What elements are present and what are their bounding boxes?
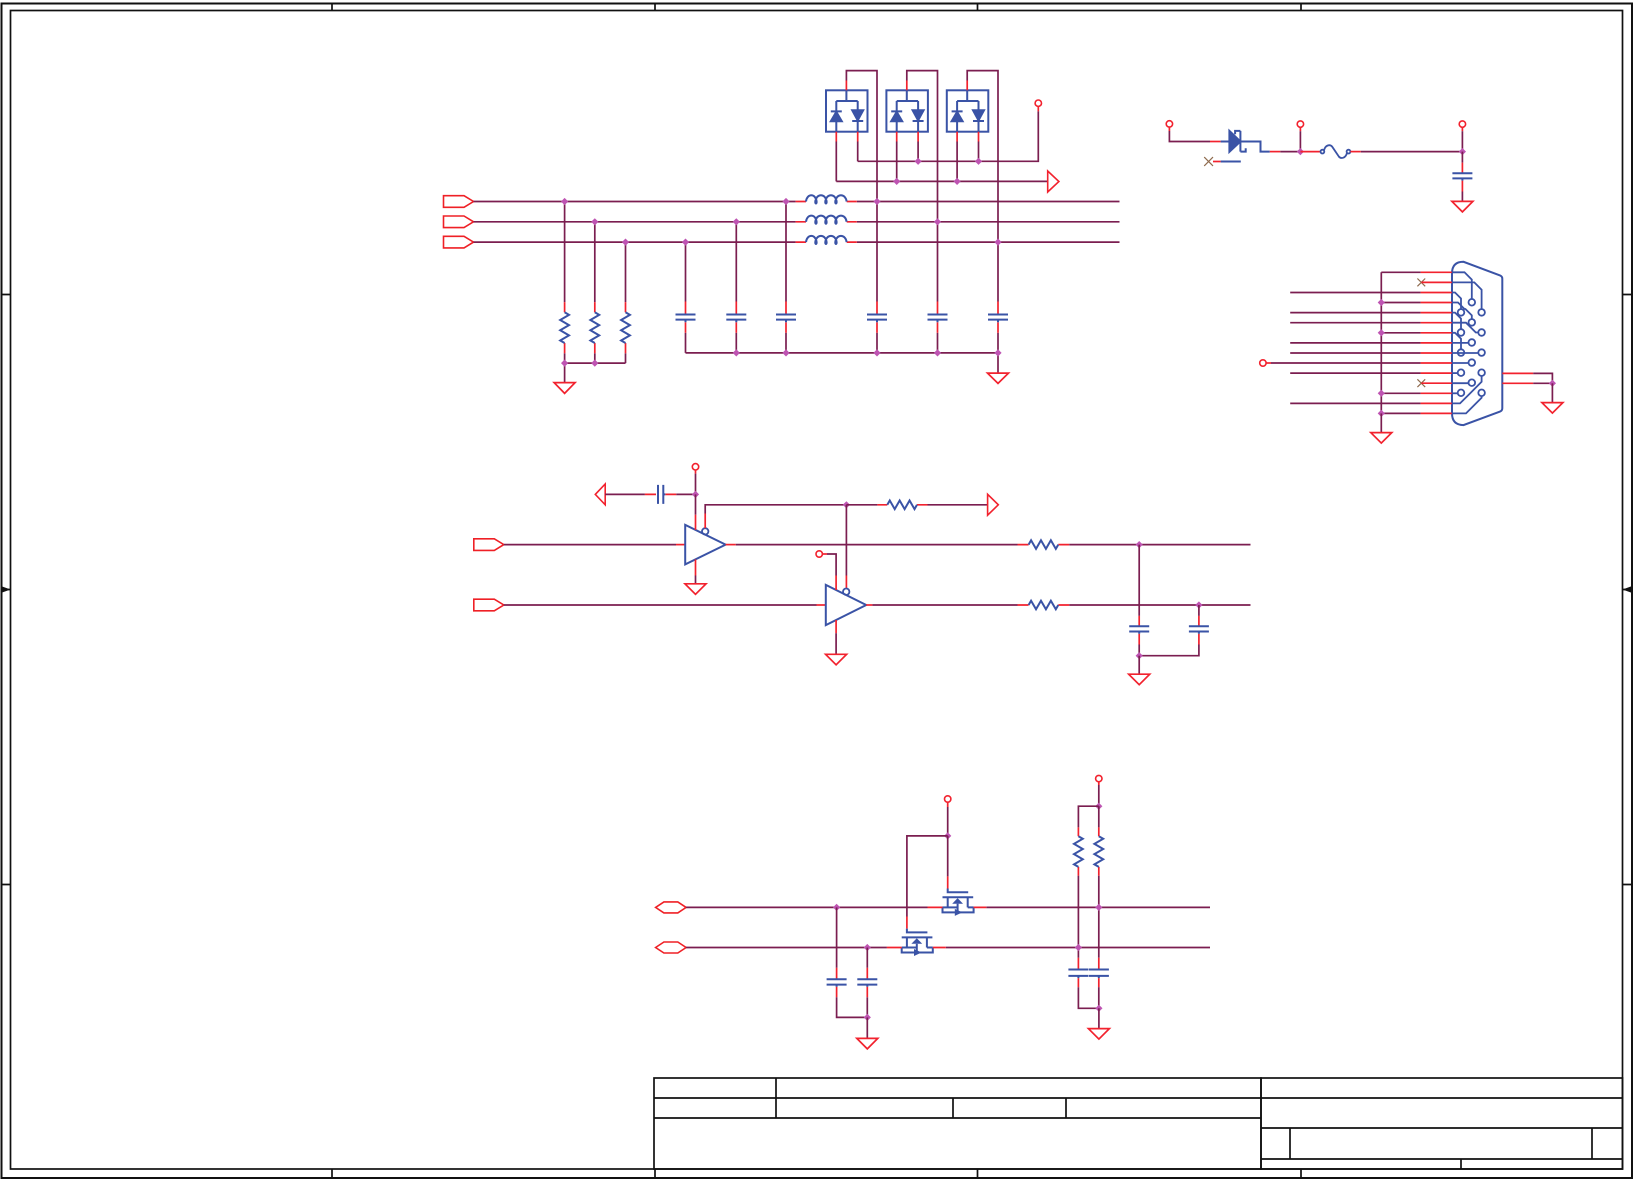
- wire U1 output (line A): [736, 544, 1018, 546]
- wire feedback to R4: [846, 504, 877, 506]
- wire line B to C10: [1198, 605, 1200, 616]
- wire D4 to node V1: [1280, 151, 1300, 153]
- node line B / C2: [733, 218, 740, 225]
- resistor R1 pins: [564, 302, 566, 353]
- ground G9: [857, 1038, 878, 1049]
- capacitor C9 pins: [1138, 616, 1140, 645]
- wire PE to U2: [504, 604, 817, 606]
- right centre arrow: [1623, 589, 1633, 591]
- no-connect X pin 2: [1417, 279, 1425, 287]
- node bus pin13: [1378, 390, 1385, 397]
- wire lower bus to arrow port: [836, 180, 1047, 182]
- capacitor C11: [827, 979, 847, 987]
- diode D4 cathode pin: [1270, 151, 1281, 153]
- wire to pin 9: [1290, 352, 1420, 354]
- power port VP5 pin: [1266, 362, 1271, 364]
- node shield: [1549, 380, 1556, 387]
- wire TVS D2 right pin to bus: [917, 142, 919, 162]
- wire resistor R3 drop: [625, 242, 627, 363]
- capacitor C8 pins: [645, 493, 676, 495]
- resistor R5 pins: [1018, 544, 1070, 546]
- wire PD to U1: [504, 544, 676, 546]
- left centre arrow: [2, 589, 11, 591]
- wire VP4 to node V2: [1461, 131, 1463, 151]
- inductor L2 pins: [796, 221, 857, 223]
- wire upper bus to power port: [858, 111, 1039, 161]
- trace pin6: [1452, 323, 1478, 333]
- trace pin11: [1452, 372, 1458, 374]
- capacitor C14: [1089, 970, 1109, 979]
- pin 2 stub: [1421, 281, 1452, 283]
- transistor Q1 source/drain pins: [928, 906, 987, 908]
- wire C11 to ground node: [837, 997, 868, 1017]
- trace pin15: [1452, 396, 1482, 413]
- arrow port AP2: [988, 494, 999, 515]
- fuse F1: [1321, 145, 1351, 158]
- trace pin12: [1452, 382, 1469, 384]
- node cap bus C5: [934, 349, 941, 356]
- trace pin10: [1452, 362, 1469, 364]
- node ground caps: [1136, 652, 1143, 659]
- power port VP8 pin: [947, 802, 949, 807]
- capacitor C14 pins: [1098, 958, 1100, 987]
- node bus pin4: [1378, 299, 1385, 306]
- wire line B right: [1069, 604, 1250, 606]
- node line1 C11: [833, 904, 840, 911]
- wire VP3 to node V1: [1299, 131, 1301, 151]
- top zone ticks: [332, 4, 1301, 11]
- pin 9 stub: [1421, 352, 1452, 354]
- capacitor C1 pins: [685, 302, 687, 333]
- U1 ground pin: [695, 559, 697, 575]
- pin 10 stub: [1421, 362, 1452, 364]
- fuse F1 left pin: [1300, 151, 1320, 153]
- TVS D3 pins: [957, 81, 978, 142]
- ground G9 stem: [866, 1017, 868, 1038]
- capacitor C6: [988, 315, 1008, 323]
- inductor L3 pins: [796, 241, 857, 243]
- wire VP2 to diode D4: [1169, 131, 1210, 142]
- U1 output pin: [726, 544, 736, 546]
- power port VP4 pin: [1461, 127, 1463, 131]
- buffer U2 enable bubble: [843, 589, 849, 595]
- resistor R2: [590, 312, 599, 343]
- wire C9 to ground node: [1138, 645, 1140, 656]
- port PE (input flag): [474, 599, 504, 611]
- wire gate node to Q1 gate: [947, 836, 949, 877]
- ground G5 stem: [1551, 383, 1553, 402]
- capacitor C10 pins: [1198, 616, 1200, 645]
- node bottom ground: [1095, 1005, 1102, 1012]
- U2 enable pin: [845, 576, 847, 589]
- ground G8 stem: [1138, 656, 1140, 675]
- arrow port AP3 (left): [595, 484, 605, 505]
- wire TVS D2 top loop: [907, 71, 938, 222]
- ground G7: [826, 654, 847, 665]
- capacitor C7 pins: [1461, 163, 1463, 192]
- inductor L1 pins: [796, 201, 857, 203]
- node line A / C3: [782, 198, 789, 205]
- capacitor C5 drop: [937, 222, 939, 353]
- wire bus to pin 7: [1381, 332, 1420, 334]
- power port VP3: [1297, 121, 1303, 127]
- wire node V2 to capacitor C7: [1461, 152, 1463, 163]
- power port VP3 pin: [1299, 127, 1301, 131]
- capacitor C3 drop: [785, 202, 787, 353]
- wire TVS D1 top loop: [846, 71, 877, 202]
- pin 14 stub: [1421, 402, 1452, 404]
- resistor R7: [1074, 836, 1083, 867]
- port PF (bidir hex flag): [656, 902, 687, 913]
- inductor L3: [806, 236, 847, 244]
- transistor Q2 source/drain pins: [887, 947, 946, 949]
- pin 1 stub: [1421, 271, 1452, 273]
- pin 15 stub: [1421, 412, 1452, 414]
- wire to pin 8: [1290, 342, 1420, 344]
- capacitor C6 pins: [997, 302, 999, 333]
- arrow port AP1: [1048, 171, 1059, 192]
- capacitor C3: [776, 315, 796, 323]
- resistor R8 pins: [1098, 827, 1100, 875]
- trace pin9: [1452, 352, 1478, 354]
- node line A / R1: [561, 198, 568, 205]
- power port VP6: [692, 464, 698, 470]
- node U1 power: [692, 491, 699, 498]
- wire VP8 to gate node: [947, 807, 949, 836]
- node R7 line2: [1075, 944, 1082, 951]
- connector J1 shell: [1452, 262, 1502, 425]
- resistor R4 pins: [877, 504, 927, 506]
- wire TVS D1 right pin to bus: [857, 142, 859, 162]
- port PD (input flag): [474, 539, 504, 551]
- U2 top pin: [835, 576, 837, 591]
- node line C / R3: [622, 239, 629, 246]
- pin 12 stub: [1421, 382, 1452, 384]
- wire to pin 14: [1290, 402, 1420, 404]
- node upper bus D3: [975, 158, 982, 165]
- capacitor C10: [1189, 626, 1209, 634]
- power port VP8 (gate bias): [945, 796, 951, 802]
- wire line1 to C11: [836, 907, 838, 967]
- resistor R2 pins: [594, 302, 596, 353]
- node line B / R2: [591, 218, 598, 225]
- trace pin5: [1452, 313, 1461, 330]
- wire phase B: [474, 221, 1120, 223]
- diode D4 (schottky): [1221, 131, 1270, 162]
- node line A cap: [1136, 541, 1143, 548]
- capacitor C1 drop: [685, 242, 687, 353]
- pads column B: [1469, 299, 1476, 306]
- capacitor C5: [928, 315, 948, 323]
- wire to pin 5: [1290, 312, 1420, 314]
- wire TVS D3 left pin to bus: [956, 142, 958, 182]
- wire phase C: [474, 241, 1120, 243]
- buffer U1: [685, 525, 725, 565]
- node cap bus C4: [873, 349, 880, 356]
- wire phase A: [474, 201, 1120, 203]
- wire J1 ground bus: [1380, 272, 1382, 413]
- node V2: [1459, 148, 1466, 155]
- capacitor C4 drop: [876, 202, 878, 353]
- diode D4 anode pin: [1210, 141, 1221, 143]
- power port VP1: [1035, 100, 1041, 106]
- capacitor C12 pins: [866, 968, 868, 998]
- wire line 2 right: [946, 947, 1210, 949]
- capacitor C12: [857, 979, 877, 987]
- inductor L1: [806, 195, 847, 203]
- wire to pin 3: [1290, 292, 1420, 294]
- wire shield lower: [1533, 382, 1552, 384]
- port PB (phase B input flag): [444, 216, 474, 228]
- J1 internal traces: [1452, 272, 1485, 413]
- node V1: [1297, 148, 1304, 155]
- node line2 C12: [864, 944, 871, 951]
- wire C14 to ground node: [1098, 987, 1100, 1008]
- TVS D3 internals: [952, 90, 984, 131]
- capacitor C13 pins: [1077, 958, 1079, 987]
- resistor R7 pins: [1077, 827, 1079, 875]
- node bus pin15: [1378, 410, 1385, 417]
- ground G1 stem: [564, 363, 566, 383]
- resistor R3 pins: [625, 302, 627, 353]
- node R8 line1: [1095, 904, 1102, 911]
- wire line A to C9: [1138, 545, 1140, 616]
- transistor Q2 gate pin: [906, 917, 908, 929]
- wire pullup node to R7: [1078, 806, 1098, 827]
- title block left box: [654, 1078, 1261, 1169]
- TVS D1 internals: [831, 90, 863, 131]
- buffer U2: [826, 585, 866, 625]
- TVS D1 box: [826, 90, 868, 131]
- node upper bus D2: [915, 158, 922, 165]
- wire line 1 left: [686, 906, 927, 908]
- wire C8 to node: [676, 493, 695, 495]
- wire bus to pin 4: [1381, 302, 1420, 304]
- power port VP7 pin: [822, 553, 827, 555]
- wire pullup node to R8: [1098, 806, 1100, 827]
- trace pin4: [1452, 303, 1472, 320]
- power port VP5: [1260, 360, 1266, 366]
- resistor R1: [560, 312, 569, 343]
- trace pin2: [1452, 282, 1482, 309]
- wire TVS D2 left pin to bus: [896, 142, 898, 182]
- wire R7 to line 2: [1077, 876, 1079, 958]
- pin 4 stub: [1421, 302, 1452, 304]
- node R common 2: [591, 360, 598, 367]
- resistor R3: [621, 312, 630, 343]
- wire C10 to ground node: [1139, 645, 1199, 656]
- wire gate node to Q2 gate: [907, 836, 948, 917]
- capacitor C4 pins: [876, 302, 878, 333]
- ground G6: [685, 584, 706, 595]
- pin 7 stub: [1421, 332, 1452, 334]
- wire capacitor common bus: [686, 352, 999, 354]
- ground G5: [1542, 403, 1563, 414]
- wire resistor R1 drop: [564, 202, 566, 364]
- node cap bus ground: [994, 349, 1001, 356]
- pin 5 stub: [1421, 312, 1452, 314]
- port PC (phase C input flag): [444, 236, 474, 248]
- resistor R6: [1029, 601, 1059, 610]
- pin 3 stub: [1421, 292, 1452, 294]
- ground G1: [554, 383, 575, 394]
- trace pin14: [1452, 376, 1482, 403]
- capacitor C13: [1068, 970, 1088, 979]
- diode D4 pin 2 stub: [1213, 161, 1221, 163]
- node pullup top: [1095, 803, 1102, 810]
- TVS D2 internals: [891, 90, 923, 131]
- resistor R4: [887, 501, 917, 510]
- resistor R5: [1029, 540, 1059, 549]
- buffer U1 input pin: [676, 544, 685, 546]
- power port VP6 pin: [695, 470, 697, 474]
- trace pin8: [1452, 342, 1469, 344]
- node line C / C6: [994, 239, 1001, 246]
- right zone ticks: [1623, 295, 1633, 885]
- wire AP3 to C8: [605, 493, 645, 495]
- capacitor C2 pins: [735, 302, 737, 333]
- node line B / C5: [934, 218, 941, 225]
- node bus pin7: [1378, 329, 1385, 336]
- buffer U2 input pin: [817, 604, 826, 606]
- trace pin7: [1452, 333, 1461, 350]
- U1 enable pin: [704, 514, 706, 529]
- U1 top pin: [695, 515, 697, 530]
- node cap bus C2: [733, 349, 740, 356]
- ground G3: [1452, 201, 1473, 212]
- no-connect X pin 12: [1417, 379, 1425, 387]
- node R common 1: [561, 360, 568, 367]
- wire resistor common: [565, 362, 626, 364]
- no-connect X on D4 pin 2: [1204, 157, 1213, 166]
- wire line2 to C12: [866, 948, 868, 968]
- wire C13 to ground node: [1078, 987, 1099, 1008]
- trace pin13: [1452, 392, 1458, 394]
- wire R4 to AP2: [928, 504, 988, 506]
- wire VP9 to pullup node: [1098, 785, 1100, 806]
- wire to pin 6: [1290, 322, 1420, 324]
- power port VP9 (pull-ups): [1096, 775, 1102, 781]
- node gate feed: [944, 832, 951, 839]
- wire U2 ground: [835, 633, 837, 654]
- wire U1 ground: [695, 576, 697, 584]
- title block right box: [1261, 1078, 1623, 1169]
- ground G4 stem: [1380, 413, 1382, 432]
- capacitor C7: [1452, 173, 1472, 180]
- capacitor C1: [676, 315, 696, 323]
- capacitor C4: [867, 315, 887, 323]
- node line B cap: [1195, 601, 1202, 608]
- fuse F1 right pin: [1350, 151, 1360, 153]
- ground G10: [1088, 1029, 1109, 1040]
- ground G4: [1371, 433, 1392, 444]
- node caps ground: [864, 1014, 871, 1021]
- pin 11 stub: [1421, 372, 1452, 374]
- capacitor C6 drop: [997, 242, 999, 353]
- power port VP7: [816, 551, 822, 557]
- capacitor C2 drop: [735, 222, 737, 353]
- wire TVS D1 left pin to bus: [835, 142, 837, 182]
- node lower bus D2: [893, 178, 900, 185]
- J1 shield stub lower pin: [1502, 382, 1533, 384]
- resistor R8: [1094, 836, 1103, 867]
- capacitor C3 pins: [785, 302, 787, 333]
- ground G2: [988, 373, 1009, 383]
- node cap bus C3: [782, 349, 789, 356]
- power port VP4: [1459, 121, 1465, 127]
- capacitor C2: [726, 315, 746, 323]
- wire C7 to ground: [1461, 192, 1463, 202]
- ground G10 stem: [1098, 1008, 1100, 1028]
- buffer U1 enable bubble: [702, 528, 708, 534]
- wire line A right: [1069, 544, 1250, 546]
- pin 13 stub: [1421, 392, 1452, 394]
- power port VP2: [1166, 121, 1172, 127]
- trace pin1: [1452, 272, 1472, 299]
- node line C / C1: [682, 239, 689, 246]
- resistor R6 pins: [1018, 604, 1070, 606]
- wire C12 to ground node: [866, 997, 868, 1017]
- TVS D2 pins: [897, 81, 918, 142]
- power port VP9 pin: [1098, 782, 1100, 785]
- pin 6 stub: [1421, 322, 1452, 324]
- wire to pin 11: [1290, 372, 1420, 374]
- wire bus to pin 15: [1381, 412, 1420, 414]
- wire TVS D3 top loop: [967, 71, 998, 243]
- capacitor C11 pins: [836, 968, 838, 998]
- power port VP2 pin: [1168, 127, 1170, 131]
- wire line 2 left: [686, 947, 887, 949]
- TITLE BLOCK: [654, 1078, 1623, 1169]
- wire VP7 to U2 top pin: [827, 554, 836, 576]
- capacitor C9: [1129, 626, 1149, 634]
- J1 shield stub upper pin: [1502, 372, 1533, 374]
- pads column C: [1478, 309, 1485, 316]
- wire shield upper: [1533, 373, 1552, 383]
- wire feedback to U2 enable: [845, 505, 847, 576]
- port PG (bidir hex flag): [656, 942, 687, 953]
- wire bus to pin1: [1381, 271, 1420, 273]
- wire U1 enable to feedback: [705, 505, 846, 514]
- pin 8 stub: [1421, 342, 1452, 344]
- wire VP5 to pin 10: [1271, 362, 1421, 364]
- junction dots top section: [561, 158, 1002, 367]
- node line A / C4: [873, 198, 880, 205]
- wire R8 to line 1: [1098, 876, 1100, 958]
- node feedback: [843, 501, 850, 508]
- transistor Q1 gate pin: [947, 876, 949, 888]
- transistor Q2: [902, 929, 933, 956]
- port PA (phase A input flag): [444, 196, 474, 208]
- capacitor C8: [658, 485, 665, 504]
- U2 output pin: [866, 604, 872, 606]
- capacitor C5 pins: [937, 302, 939, 333]
- wire line 1 right: [986, 906, 1210, 908]
- TVS D2 box: [886, 90, 928, 131]
- TVS D1 pins: [836, 81, 857, 142]
- wire VP6 to node: [695, 474, 697, 495]
- wire resistor R2 drop: [594, 222, 596, 363]
- ground G2 stem: [997, 353, 999, 373]
- bottom zone ticks: [332, 1169, 1301, 1178]
- inductor L2: [806, 216, 847, 224]
- left zone ticks: [2, 295, 11, 885]
- ground G8: [1129, 674, 1150, 685]
- wire TVS D3 right pin to bus: [978, 142, 980, 162]
- power port VP1 pin: [1037, 106, 1039, 111]
- trace pin3: [1452, 293, 1461, 310]
- wire bus to pin 13: [1381, 392, 1420, 394]
